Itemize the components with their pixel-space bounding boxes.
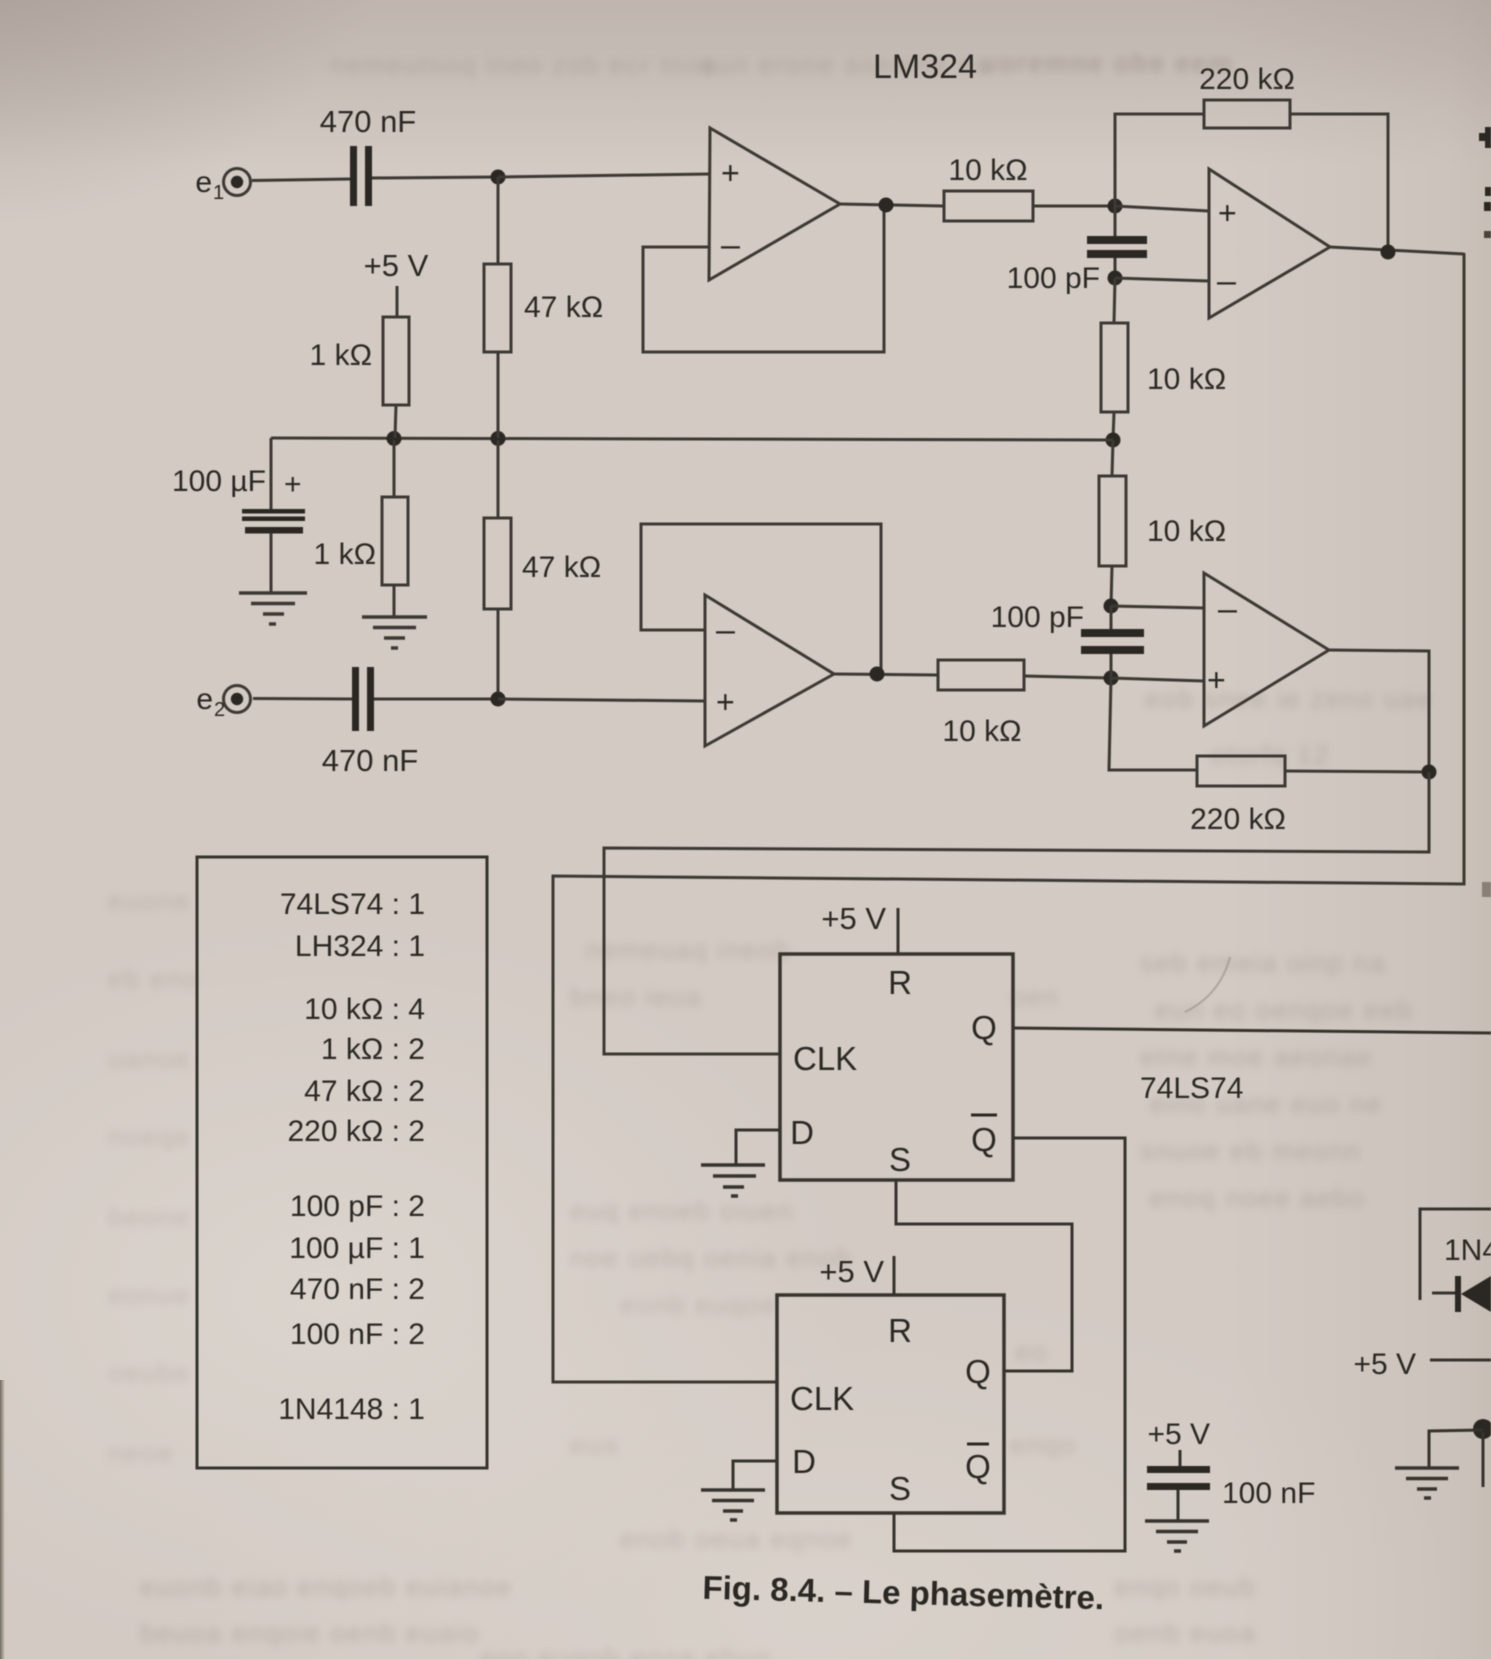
svg-text:10 kΩ : 4: 10 kΩ : 4 bbox=[304, 993, 425, 1026]
svg-text:10 kΩ: 10 kΩ bbox=[942, 715, 1021, 748]
wire mid rail bbox=[271, 438, 1113, 440]
svg-text:+5 V: +5 V bbox=[821, 901, 886, 936]
edge mark top right 4 bbox=[1484, 231, 1491, 238]
svg-text:Fig. 8.4. – Le phasemètre.: Fig. 8.4. – Le phasemètre. bbox=[702, 1569, 1104, 1617]
node D bbox=[1381, 245, 1396, 260]
svg-text:74LS74: 74LS74 bbox=[1140, 1072, 1243, 1105]
wire rail down to 100uF bbox=[270, 438, 273, 513]
wire U1D output bbox=[1329, 650, 1429, 772]
wire C2 to node J bbox=[374, 698, 498, 701]
ground under U2B D bbox=[701, 1490, 765, 1520]
svg-text:–: – bbox=[1217, 262, 1236, 300]
ground right edge bbox=[1395, 1468, 1459, 1498]
svg-text:470 nF: 470 nF bbox=[320, 104, 417, 139]
wire R1 to rail bbox=[395, 405, 396, 438]
svg-text:+: + bbox=[284, 468, 302, 501]
wire node C to U1B - input bbox=[1115, 278, 1209, 281]
wire node B down to C3 bbox=[1114, 206, 1117, 238]
wire C6 to ground bbox=[1177, 1490, 1180, 1521]
svg-text:470 nF: 470 nF bbox=[322, 743, 419, 778]
wire node F to U1D - input bbox=[1111, 606, 1204, 608]
svg-text:100 nF: 100 nF bbox=[1222, 1477, 1315, 1510]
svg-text:e: e bbox=[196, 683, 213, 716]
wire R4 to node J bbox=[497, 609, 500, 699]
svg-text:74LS74 : 1: 74LS74 : 1 bbox=[280, 888, 425, 921]
capacitor C6 100nF bbox=[1147, 1466, 1210, 1473]
wire +5V tick above C6 bbox=[1179, 1450, 1182, 1468]
svg-text:Q: Q bbox=[965, 1353, 991, 1390]
wire C1 to node A bbox=[372, 177, 498, 178]
svg-text:100 pF: 100 pF bbox=[991, 601, 1084, 634]
partial box right 1N4148 bbox=[1420, 1209, 1491, 1300]
capacitor C3 100pF bbox=[1087, 236, 1147, 244]
svg-text:1N4148 : 1: 1N4148 : 1 bbox=[278, 1393, 425, 1426]
svg-text:470 nF : 2: 470 nF : 2 bbox=[290, 1273, 425, 1306]
wire blob down bbox=[1482, 1432, 1485, 1487]
svg-text:R: R bbox=[888, 964, 912, 1001]
svg-text:LM324: LM324 bbox=[873, 48, 977, 86]
node blob right edge bbox=[1473, 1419, 1491, 1439]
wire e1 to C1 bbox=[252, 179, 350, 181]
wire U1C output bbox=[834, 674, 938, 675]
svg-text:e: e bbox=[195, 166, 212, 199]
resistor R4 47k bbox=[484, 518, 511, 609]
svg-text:10 kΩ: 10 kΩ bbox=[948, 154, 1027, 187]
svg-text:100 pF: 100 pF bbox=[1007, 262, 1100, 295]
input jack e2 bbox=[224, 686, 251, 713]
wire +5V to U2A R pin bbox=[897, 908, 900, 953]
svg-text:–: – bbox=[716, 611, 735, 649]
svg-text:R: R bbox=[888, 1312, 912, 1349]
svg-text:100 µF : 1: 100 µF : 1 bbox=[289, 1232, 425, 1265]
capacitor C2 470nF bbox=[352, 667, 359, 731]
svg-text:1N4: 1N4 bbox=[1444, 1234, 1491, 1267]
svg-text:+: + bbox=[721, 155, 740, 191]
node E bbox=[1106, 433, 1121, 448]
wire U1A output bbox=[840, 204, 944, 206]
svg-text:+: + bbox=[716, 684, 735, 720]
input jack e1 bbox=[224, 169, 251, 196]
node B bbox=[1108, 199, 1123, 214]
svg-text:100 nF : 2: 100 nF : 2 bbox=[290, 1318, 425, 1351]
wire +5V tick to R1 bbox=[396, 286, 399, 317]
capacitor C4 100pF bbox=[1081, 629, 1144, 637]
node rail-R2 bbox=[387, 431, 402, 446]
op-amp U1B bbox=[1209, 169, 1330, 318]
svg-text:10 kΩ: 10 kΩ bbox=[1147, 363, 1226, 396]
wire +5V right edge bbox=[1430, 1359, 1491, 1362]
svg-text:+: + bbox=[1207, 662, 1226, 698]
svg-text:+5 V: +5 V bbox=[1147, 1418, 1210, 1451]
svg-text:47 kΩ: 47 kΩ bbox=[522, 551, 601, 584]
node A bbox=[491, 170, 506, 185]
wire C4 to node G bbox=[1110, 654, 1113, 678]
wire +5V to U2B R pin bbox=[893, 1256, 896, 1295]
wire node F down to C4 bbox=[1110, 606, 1113, 631]
wire U1B output bbox=[1330, 247, 1464, 254]
svg-text:S: S bbox=[889, 1470, 911, 1507]
wire node E to R8 bbox=[1112, 440, 1113, 476]
wire rail to R4 bbox=[497, 440, 500, 518]
wire U2A Q output bbox=[1013, 1028, 1491, 1033]
svg-text:220 kΩ : 2: 220 kΩ : 2 bbox=[287, 1115, 425, 1148]
resistor R3 47k bbox=[484, 264, 511, 352]
wire U1A feedback bbox=[643, 204, 884, 352]
resistor R8 10k bbox=[1099, 476, 1126, 566]
edge mark right mid bbox=[1482, 882, 1491, 897]
resistor R2 1k bbox=[382, 497, 408, 585]
node G bbox=[1104, 671, 1119, 686]
wire U2A Qbar to U2B S bbox=[894, 1138, 1125, 1551]
wire node G to U1D + input bbox=[1111, 678, 1204, 681]
svg-text:47 kΩ : 2: 47 kΩ : 2 bbox=[304, 1075, 425, 1108]
svg-text:Q: Q bbox=[971, 1121, 997, 1158]
wire node A to op-amp U1A bbox=[498, 174, 710, 177]
resistor R9 220k bbox=[1204, 100, 1290, 128]
resistor R6 10k bbox=[938, 660, 1024, 690]
flip-flop U2A 74LS74 bbox=[780, 954, 1013, 1180]
wire node B to U1B + input bbox=[1115, 206, 1209, 211]
op-amp U1D bbox=[1204, 573, 1329, 726]
node J bbox=[491, 692, 506, 707]
op-amp U1C bbox=[705, 595, 834, 746]
svg-text:+: + bbox=[1218, 195, 1237, 231]
bleed-through text layer goes here bbox=[0, 0, 1491, 1]
flip-flop U2B 74LS74 bbox=[777, 1295, 1004, 1513]
svg-text:47 kΩ: 47 kΩ bbox=[524, 291, 603, 324]
svg-text:1 kΩ : 2: 1 kΩ : 2 bbox=[321, 1033, 425, 1066]
resistor R5 10k bbox=[944, 191, 1033, 221]
svg-text:100 pF : 2: 100 pF : 2 bbox=[290, 1190, 425, 1223]
wire node G down to R10 bbox=[1109, 678, 1197, 770]
node H bbox=[1422, 765, 1437, 780]
wire node C down to R7 bbox=[1114, 278, 1115, 323]
svg-text:1: 1 bbox=[213, 182, 224, 204]
svg-text:Q: Q bbox=[971, 1009, 997, 1046]
wire U1C feedback bbox=[641, 524, 881, 673]
svg-text:220 kΩ: 220 kΩ bbox=[1199, 63, 1295, 96]
resistor R10 220k bbox=[1197, 756, 1285, 786]
wire R3 to rail bbox=[497, 352, 500, 438]
edge mark top right 1 bbox=[1485, 127, 1491, 148]
resistor R1 1k bbox=[383, 317, 409, 405]
capacitor C1 470nF bbox=[350, 146, 357, 206]
svg-text:LH324 : 1: LH324 : 1 bbox=[295, 930, 425, 963]
ground under C6 bbox=[1145, 1521, 1209, 1551]
svg-text:100 µF: 100 µF bbox=[172, 465, 266, 498]
svg-text:D: D bbox=[792, 1443, 816, 1480]
svg-text:–: – bbox=[721, 226, 740, 264]
wire R5 to node B bbox=[1033, 205, 1115, 208]
svg-text:10 kΩ: 10 kΩ bbox=[1147, 515, 1226, 548]
svg-text:+5 V: +5 V bbox=[364, 248, 429, 283]
wire node J to op-amp U1C bbox=[498, 699, 705, 701]
wire R6 to node G bbox=[1024, 676, 1111, 678]
svg-text:+5 V: +5 V bbox=[819, 1254, 884, 1289]
svg-text:1 kΩ: 1 kΩ bbox=[310, 339, 372, 372]
wire C3 to node C bbox=[1114, 258, 1117, 278]
wire blob to ground bbox=[1429, 1430, 1483, 1468]
parts list box bbox=[197, 857, 487, 1468]
svg-text:+5 V: +5 V bbox=[1353, 1348, 1416, 1381]
svg-text:Q: Q bbox=[965, 1448, 991, 1485]
svg-text:220 kΩ: 220 kΩ bbox=[1190, 803, 1286, 836]
svg-text:D: D bbox=[790, 1114, 814, 1151]
node U1A output bbox=[879, 198, 894, 213]
wire e2 to C2 bbox=[253, 697, 352, 701]
edge mark top right 2 bbox=[1485, 187, 1491, 196]
wire U2B D to ground bbox=[733, 1461, 777, 1490]
wire R10 to node H bbox=[1285, 771, 1429, 772]
svg-text:CLK: CLK bbox=[793, 1040, 857, 1077]
wire U2A S to U2B Q bbox=[896, 1180, 1072, 1371]
op-amp U1A bbox=[709, 128, 840, 280]
wire node B up to R9 bbox=[1115, 114, 1204, 206]
ground under R2 bbox=[362, 617, 427, 648]
wire node H to FF1 CLK bbox=[604, 772, 1429, 1054]
capacitor C5 100uF bbox=[242, 509, 305, 514]
wire node A down to R3 bbox=[497, 177, 500, 264]
ground under C5 bbox=[239, 593, 307, 624]
node rail-R4 bbox=[491, 431, 506, 446]
wire U2A D to ground bbox=[736, 1130, 780, 1164]
svg-text:–: – bbox=[1218, 590, 1237, 628]
node C bbox=[1108, 271, 1123, 286]
ground under U2A D bbox=[701, 1165, 765, 1196]
wire node D to FF2 CLK bbox=[553, 253, 1464, 1382]
diode D1 1N4148 bbox=[1432, 1292, 1458, 1295]
node F bbox=[1104, 599, 1119, 614]
node U1C output bbox=[870, 667, 885, 682]
resistor R7 10k bbox=[1101, 323, 1128, 412]
svg-text:S: S bbox=[889, 1141, 911, 1178]
svg-text:2: 2 bbox=[214, 699, 225, 721]
wire R8 to node F bbox=[1111, 566, 1112, 606]
edge mark top right 3 bbox=[1484, 202, 1491, 211]
svg-text:1 kΩ: 1 kΩ bbox=[314, 538, 376, 571]
svg-text:CLK: CLK bbox=[790, 1380, 854, 1417]
wire R9 to node D bbox=[1290, 114, 1388, 250]
wire C5 to ground bbox=[270, 533, 273, 593]
wire R7 to node E bbox=[1113, 412, 1114, 440]
wire rail to R2 bbox=[393, 440, 396, 497]
scratch mark bbox=[1185, 957, 1230, 1012]
wire R2 to ground bbox=[393, 585, 396, 617]
